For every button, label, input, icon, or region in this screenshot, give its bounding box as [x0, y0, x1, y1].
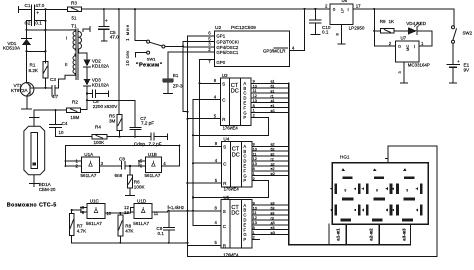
svg-text:GP3/MCLR: GP3/MCLR — [263, 49, 285, 54]
counter U5 176IE4 — [221, 200, 252, 248]
svg-text:8: 8 — [253, 167, 255, 171]
svg-text:U3: U3 — [222, 73, 228, 78]
svg-text:15M: 15M — [70, 115, 79, 120]
svg-text:PIC12C509: PIC12C509 — [231, 25, 256, 31]
wire: HV node down to R2 — [80, 108, 87, 110]
svg-text:LP: LP — [340, 8, 345, 13]
wire: f=1.4kHz output line — [152, 211, 221, 212]
wire: U5 carry stub — [252, 239, 260, 241]
svg-text:9: 9 — [253, 80, 255, 84]
svg-text:е2: е2 — [271, 167, 275, 171]
svg-text:U6: U6 — [342, 0, 348, 3]
svg-text:U1C: U1C — [90, 198, 100, 203]
wire: GP5 pin2 — [168, 51, 214, 53]
svg-text:9: 9 — [376, 189, 378, 193]
svg-text:б3: б3 — [271, 207, 275, 211]
svg-text:б1: б1 — [271, 85, 275, 89]
wire: trunk down to R5 — [118, 9, 120, 114]
wire: trunk3 strobe line from GP0 — [200, 59, 222, 146]
svg-text:MC: MC — [405, 45, 410, 51]
wire: timing node row W1 — [56, 136, 151, 138]
svg-text:GP5/OSC1: GP5/OSC1 — [216, 50, 239, 55]
svg-text:8: 8 — [253, 104, 255, 108]
wire: C2 left lead down to VD1 line — [26, 21, 28, 30]
svg-text:U2: U2 — [215, 25, 221, 31]
wire: U1C inputs tied to R7 — [72, 207, 87, 212]
capacitor C4 10 — [50, 110, 62, 137]
svg-text:10: 10 — [253, 84, 257, 88]
svg-text:ж3: ж3 — [271, 231, 275, 235]
wires: U3 segment outputs to bus — [251, 82, 289, 84]
capacitor C1 47.0 — [32, 5, 46, 25]
svg-text:S: S — [223, 145, 226, 150]
svg-text:11: 11 — [253, 152, 257, 156]
svg-text:176ИЕ4: 176ИЕ4 — [223, 126, 239, 131]
wire: C3 right to feedback winding — [55, 75, 65, 88]
svg-text:561LA7: 561LA7 — [133, 221, 149, 226]
svg-text:U4: U4 — [223, 137, 229, 142]
svg-text:+: + — [105, 19, 108, 25]
wire: oscillator ground rail — [72, 242, 188, 244]
wire: base to R1/C3 node — [30, 87, 52, 89]
supervisor U7 MC33164P — [396, 41, 420, 62]
svg-text:0.1: 0.1 — [158, 231, 165, 236]
svg-text:в2: в2 — [271, 153, 275, 157]
resistor R8 47K — [119, 212, 121, 214]
svg-text:13: 13 — [124, 210, 129, 215]
battery E1 9V — [452, 43, 454, 64]
wire: GP0 pin7 — [200, 58, 215, 60]
svg-text:U1A: U1A — [84, 152, 94, 157]
gate U1C 561LA7 — [87, 203, 105, 218]
resistor R2 15M — [67, 108, 81, 112]
svg-text:T1: T1 — [71, 24, 77, 29]
capacitor C8 6n8 — [121, 161, 145, 168]
resistor R7 4.7K — [71, 210, 73, 213]
MCU U2 PIC12C509 — [214, 31, 289, 67]
svg-text:561LA7: 561LA7 — [145, 173, 161, 178]
svg-text:17: 17 — [356, 4, 361, 9]
svg-text:P: P — [243, 178, 246, 183]
svg-text:9V: 9V — [464, 68, 471, 73]
switch SW1 Rezhim — [147, 40, 150, 43]
svg-text:д1: д1 — [271, 99, 275, 103]
svg-text:г2: г2 — [271, 157, 274, 161]
svg-text:е1: е1 — [271, 104, 275, 108]
svg-text:а3-ж3: а3-ж3 — [402, 228, 407, 241]
node: rail junction switch trunk — [118, 8, 120, 10]
input terminal — [19, 7, 31, 13]
svg-text:U7: U7 — [401, 36, 407, 41]
svg-text:HG1: HG1 — [340, 155, 350, 160]
svg-text:7,2 pF: 7,2 pF — [141, 121, 154, 126]
wire: GP1 pin6 — [187, 36, 214, 42]
svg-text:а1-ж1: а1-ж1 — [336, 228, 341, 241]
svg-text:S: S — [223, 209, 226, 214]
wire: U3 carry loop to U4 — [193, 117, 268, 135]
wire: U4 carry loop to U5 — [193, 181, 268, 198]
transistor VT1 KT972A — [20, 83, 34, 97]
svg-text:в1: в1 — [271, 89, 275, 93]
svg-text:11: 11 — [253, 89, 257, 93]
capacitor C10 0.1 — [314, 8, 316, 10]
svg-text:U1D: U1D — [137, 198, 147, 203]
svg-text:"Режим": "Режим" — [136, 63, 163, 69]
7-seg digit at 347.6 — [341, 168, 344, 171]
gate U1B 561LA7 — [145, 157, 161, 172]
wire: stub VD1 line to R1 line — [27, 50, 46, 52]
resistor R4 100K — [92, 135, 107, 139]
svg-text:SW1: SW1 — [147, 56, 156, 61]
svg-text:I: I — [348, 7, 349, 12]
svg-text:а2: а2 — [271, 143, 275, 147]
svg-text:C2: C2 — [25, 21, 31, 26]
svg-text:561LA7: 561LA7 — [81, 173, 97, 178]
svg-text:б2: б2 — [271, 148, 275, 152]
resistor R3 51 — [68, 7, 82, 11]
svg-text:ж1: ж1 — [271, 109, 275, 113]
svg-text:KD102A: KD102A — [92, 64, 110, 69]
wire: GP4 pin3 from switch — [165, 45, 215, 48]
diode VD1 KD510A — [22, 30, 32, 39]
display HG1 — [332, 163, 428, 225]
svg-text:LP2950: LP2950 — [349, 25, 365, 30]
svg-text:+: + — [457, 59, 460, 64]
svg-text:12: 12 — [253, 157, 257, 161]
svg-text:9: 9 — [253, 201, 255, 205]
winding I (primary upper) — [71, 30, 75, 50]
svg-text:KT972A: KT972A — [11, 88, 29, 93]
svg-text:P: P — [243, 115, 246, 120]
node: rail to R9 branch — [373, 8, 375, 10]
svg-text:0: 0 — [333, 7, 336, 12]
wire: vertical x=45.4 rail to base node — [44, 9, 46, 63]
winding II (feedback lower) — [65, 56, 75, 76]
svg-text:GP0: GP0 — [216, 60, 225, 65]
wire: switch feed — [135, 9, 147, 40]
svg-text:а3: а3 — [271, 202, 275, 206]
svg-text:1: 1 — [253, 109, 255, 113]
svg-text:1: 1 — [253, 172, 255, 176]
capacitor C6 2200x630V — [86, 93, 88, 95]
svg-text:P: P — [243, 237, 246, 242]
svg-text:DC: DC — [231, 89, 239, 95]
diode VD2 KD102A — [84, 60, 91, 67]
svg-text:KD510A: KD510A — [3, 46, 21, 51]
svg-text:г1: г1 — [271, 94, 274, 98]
svg-text:DC: DC — [232, 152, 240, 158]
regulator U6 LP2950 — [330, 4, 353, 24]
svg-text:10: 10 — [253, 147, 257, 151]
svg-text:C3: C3 — [50, 77, 56, 82]
ground U6 — [338, 24, 345, 44]
resistor R1 8.2K — [43, 62, 48, 79]
svg-text:13: 13 — [253, 221, 257, 225]
svg-text:DC: DC — [231, 211, 239, 217]
svg-text:11: 11 — [253, 211, 257, 215]
resistor R5 3M — [117, 115, 122, 131]
svg-text:0: 0 — [398, 44, 401, 49]
wire: MCLR pin4 to rail — [289, 9, 304, 51]
ground U7 — [401, 62, 408, 83]
svg-text:10: 10 — [59, 130, 64, 135]
wire: U1C out to U1D — [105, 207, 134, 213]
svg-text:а2-ж2: а2-ж2 — [369, 228, 374, 241]
svg-text:100K: 100K — [94, 140, 106, 145]
7-seg digit at 409.4 — [403, 168, 406, 171]
svg-text:R2: R2 — [72, 100, 78, 105]
svg-text:I: I — [414, 44, 415, 49]
switch SW2 power — [453, 9, 455, 26]
svg-text:ж2: ж2 — [271, 172, 275, 176]
svg-text:C8: C8 — [119, 156, 125, 161]
wire: +V top rail — [45, 8, 454, 10]
svg-text:9: 9 — [344, 189, 346, 193]
svg-text:г3: г3 — [271, 216, 274, 220]
wire: secondary bottom to VD2 — [83, 29, 87, 60]
svg-text:100K: 100K — [134, 184, 146, 189]
svg-text:3M: 3M — [109, 118, 116, 123]
svg-text:SW2: SW2 — [463, 30, 473, 35]
counter U3 176IE4 — [220, 78, 251, 126]
wire: trunk2 clock line — [193, 99, 221, 225]
wires: U5 segment outputs to bus — [252, 204, 289, 206]
svg-text:47.0: 47.0 — [110, 35, 119, 40]
svg-text:2: 2 — [253, 177, 255, 181]
svg-text:R1: R1 — [30, 63, 36, 68]
wire: trunk1 reset line — [186, 42, 188, 257]
svg-text:9: 9 — [406, 189, 408, 193]
wire: HG1 common anode loop — [187, 146, 437, 256]
buzzer B1 ZP-3 — [167, 52, 169, 76]
bus: segment lines to display — [289, 83, 411, 245]
svg-text:B1: B1 — [173, 73, 179, 78]
wire: HV node to C7 branch — [86, 99, 88, 101]
capacitor C5 47.0 electrolytic — [99, 9, 109, 27]
capacitor C2 0.1 — [27, 20, 46, 22]
svg-text:47K: 47K — [125, 229, 134, 234]
svg-text:9: 9 — [253, 143, 255, 147]
wire: secondary top to terminal — [83, 27, 90, 32]
svg-text:13: 13 — [253, 162, 257, 166]
capacitor C3 4.7 — [52, 86, 55, 96]
svg-text:0.1: 0.1 — [322, 30, 329, 35]
svg-text:R3: R3 — [71, 1, 77, 6]
svg-text:KD102A: KD102A — [92, 83, 110, 88]
wire: GP2 pin5 — [183, 41, 215, 43]
svg-text:R9: R9 — [380, 19, 386, 24]
svg-text:13: 13 — [253, 99, 257, 103]
svg-text:0.1: 0.1 — [35, 21, 42, 26]
svg-text:S: S — [222, 82, 225, 87]
svg-text:U1B: U1B — [148, 152, 157, 157]
svg-text:6n8: 6n8 — [115, 173, 123, 178]
svg-text:1 мин: 1 мин — [125, 24, 131, 41]
wire: U1A out to C8 — [99, 165, 121, 167]
svg-text:в3: в3 — [271, 211, 275, 215]
wire: oscillator feedback W2 — [66, 146, 180, 166]
svg-text:4.7: 4.7 — [52, 94, 59, 99]
svg-text:MC33164P: MC33164P — [408, 63, 430, 68]
svg-text:СБМ-20: СБМ-20 — [39, 187, 56, 192]
svg-text:8.2K: 8.2K — [29, 68, 39, 73]
geiger tube BD1 SBM-20 — [30, 117, 40, 119]
gate U1A 561LA7 — [82, 157, 100, 172]
resistor R9 1K — [381, 29, 394, 33]
svg-text:4.7K: 4.7K — [77, 229, 87, 234]
svg-text:I: I — [66, 36, 67, 41]
counter U4 176IE4 — [221, 142, 252, 187]
wire: R9 node to U7 pin2 — [374, 31, 395, 46]
svg-text:12: 12 — [253, 216, 257, 220]
svg-text:8: 8 — [253, 226, 255, 230]
7-seg digit at 379.2 — [373, 168, 376, 171]
svg-text:2: 2 — [253, 236, 255, 240]
svg-text:GP2/T0CKI: GP2/T0CKI — [216, 39, 238, 44]
svg-text:2200 x630V: 2200 x630V — [93, 104, 118, 109]
capacitor Cdop 7.2pF — [151, 133, 168, 140]
svg-text:176ИЕ4: 176ИЕ4 — [224, 187, 240, 192]
svg-text:561LA7: 561LA7 — [86, 221, 102, 226]
svg-text:+: + — [36, 10, 39, 16]
wires: U4 segment outputs to bus — [252, 145, 289, 147]
LED VD4 RED — [394, 30, 408, 32]
svg-text:R4: R4 — [95, 125, 101, 130]
diode VD3 KD102A — [84, 79, 91, 86]
ground VT1 emitter — [22, 96, 32, 109]
wire: LED to U7 pin1 — [417, 31, 432, 46]
wire: R2 left / C4 node / tube feed — [34, 110, 66, 117]
svg-text:II: II — [65, 62, 67, 67]
svg-text:f≈1,4kHz: f≈1,4kHz — [168, 205, 185, 210]
wire: collector line to transformer — [27, 29, 72, 31]
svg-text:а1: а1 — [271, 80, 275, 84]
svg-text:10 сек: 10 сек — [125, 50, 130, 66]
resistor R6 100K — [129, 165, 131, 167]
svg-text:д2: д2 — [271, 162, 275, 166]
gate U1D 561LA7 — [134, 203, 152, 218]
winding III (secondary) — [79, 32, 83, 54]
svg-text:GP1: GP1 — [216, 34, 225, 39]
svg-text:VD4 RED: VD4 RED — [406, 21, 427, 26]
svg-text:51: 51 — [72, 16, 77, 21]
svg-text:1: 1 — [253, 231, 255, 235]
svg-text:47.0: 47.0 — [35, 3, 44, 8]
capacitor C7 7.2pF — [130, 100, 141, 136]
svg-text:C4: C4 — [62, 121, 68, 126]
svg-text:2: 2 — [253, 114, 255, 118]
svg-text:Возможно СТС-5: Возможно СТС-5 — [7, 202, 57, 208]
svg-text:10: 10 — [253, 206, 257, 210]
svg-text:1K: 1K — [389, 19, 396, 24]
svg-text:д3: д3 — [271, 221, 275, 225]
node: rail junction C5 — [103, 8, 105, 10]
capacitor C9 0.1 — [163, 211, 174, 243]
svg-text:ZP-3: ZP-3 — [173, 84, 183, 89]
svg-text:C1: C1 — [25, 3, 31, 8]
connector cells a1-zh3 under HG1 — [329, 224, 411, 245]
svg-text:е3: е3 — [271, 226, 275, 230]
svg-text:12: 12 — [253, 94, 257, 98]
